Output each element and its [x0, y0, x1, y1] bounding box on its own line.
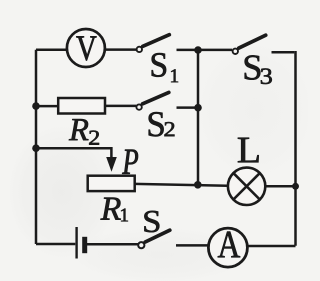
wire after S3 to top-right corner [272, 51, 295, 54]
wire bottom rail from left corner to battery [36, 243, 75, 246]
switch S1 lever [143, 35, 170, 47]
label S2 [149, 112, 164, 136]
wire ammeter to bottom-right corner [249, 245, 296, 248]
wire right vertical rail [294, 51, 297, 246]
battery cell short thick plate [82, 237, 87, 253]
switch S1 contact circle [137, 47, 142, 52]
wire wiper branch with corner [36, 148, 111, 158]
wire R2 to S2 [105, 105, 136, 108]
switch S3 lever [239, 35, 266, 48]
wire voltmeter to S1 [105, 48, 136, 51]
wire S2 to middle rail [177, 106, 199, 109]
battery cell long plate [75, 227, 77, 259]
label S3 [245, 55, 261, 79]
voltmeter V [67, 29, 105, 67]
rheostat wiper arrow P [106, 157, 117, 172]
resistor R2 [58, 98, 105, 114]
node R2 left rail junction dot [32, 102, 40, 110]
node S1-top junction dot [194, 46, 202, 54]
wire left vertical rail [35, 50, 38, 244]
label S1 [152, 53, 166, 77]
wire S1 to S3 (through node at middle rail) [177, 49, 233, 52]
rheostat R1 [88, 176, 135, 191]
ammeter A [208, 228, 247, 267]
node wiper branch left rail junction dot [32, 144, 40, 152]
label A [218, 232, 240, 258]
wire lamp to right rail [266, 185, 296, 188]
switch S lever [145, 230, 170, 242]
switch S2 lever [143, 92, 169, 103]
wire middle vertical rail [197, 50, 200, 185]
wire battery to switch S [87, 243, 138, 246]
label S [144, 211, 159, 232]
label V [76, 36, 96, 60]
wire R2 branch from left rail [36, 105, 59, 108]
wire R1 to lamp [135, 184, 228, 186]
node S2-middle rail junction dot [194, 104, 202, 112]
switch S2 contact circle [136, 104, 141, 109]
lamp L [228, 168, 265, 205]
node lamp right rail junction dot [292, 183, 299, 190]
wire S to ammeter [176, 244, 208, 247]
label R2 [69, 119, 89, 140]
switch S3 contact circle [233, 49, 238, 54]
label P [122, 150, 138, 174]
node R1-lamp middle rail junction dot [194, 181, 202, 189]
wire top rail to voltmeter [36, 48, 67, 51]
switch S contact circle [138, 242, 144, 248]
label R1 [101, 198, 121, 220]
label L [238, 138, 259, 163]
